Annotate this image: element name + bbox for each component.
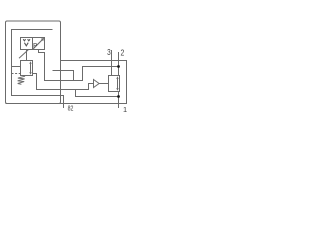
svg-text:82: 82 [68,104,74,113]
svg-text:3: 3 [107,47,111,57]
svg-text:1: 1 [123,105,127,114]
svg-text:P: P [33,44,37,50]
svg-text:2: 2 [121,48,125,58]
